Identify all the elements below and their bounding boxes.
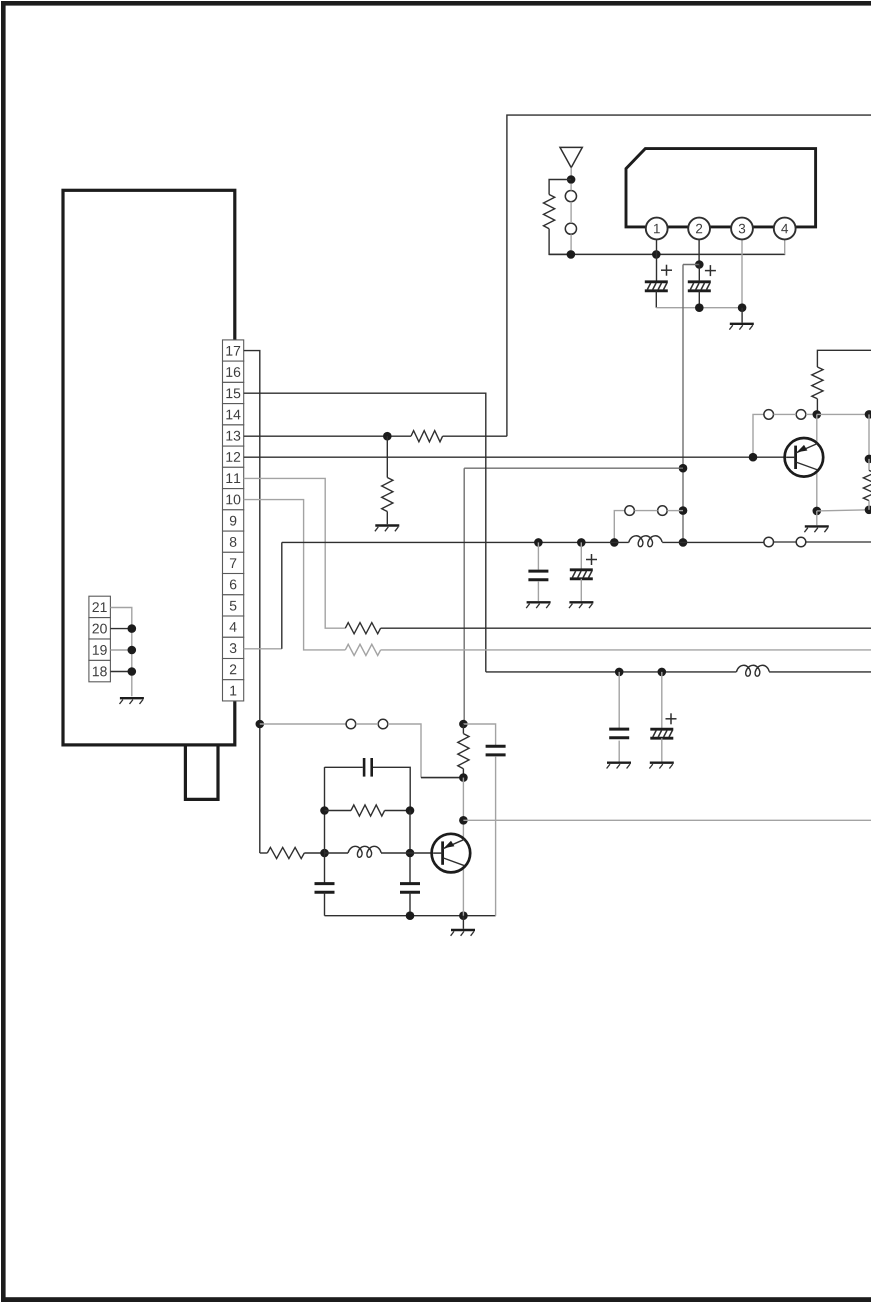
node (pin19 junction): [128, 646, 137, 655]
wire (C5 bottom lead): [618, 741, 620, 762]
node (bus-pin1 junction): [652, 250, 661, 259]
tuner pin 2 lead: [698, 238, 700, 265]
wire (supply row to right edge): [817, 350, 871, 367]
resistor R2 (pin13 row): [411, 431, 443, 442]
wire (bus between L1 and tuning line): [662, 541, 683, 543]
wire (C1 bottom): [655, 291, 657, 308]
wire (to resistor R1): [549, 180, 571, 195]
wire (tuning line down to oscillator): [463, 468, 465, 724]
capacitor C5: [609, 728, 629, 731]
wire (J5 to corner down): [388, 724, 421, 778]
tuner pin 1 lead: [656, 238, 658, 282]
node (R6-Q1 junction): [813, 410, 822, 419]
node (tank left mid): [320, 806, 329, 815]
node (pin13 divider junction): [383, 432, 392, 441]
node (jumper at bus): [610, 538, 619, 547]
wire (jog from C2 top to long vertical): [683, 264, 699, 266]
plus C1: [661, 269, 672, 271]
wire (emitter row to right edge): [817, 510, 869, 511]
plus C6: [666, 718, 677, 720]
wire (J3 mid): [774, 541, 797, 543]
node (tuning line junction A): [679, 464, 688, 473]
ground (Q1 emitter): [805, 525, 829, 527]
jumper J3 pin b: [796, 537, 806, 547]
wire (jumper branch): [614, 511, 625, 543]
node (pin17 net junction): [255, 720, 264, 729]
wire (C10 bottom vertical): [495, 756, 497, 915]
wire (R8 to tank): [304, 852, 324, 854]
capacitor C10: [486, 745, 506, 748]
wire (pin17 vertical to R8): [260, 852, 268, 854]
wire (IF bus left): [282, 541, 629, 543]
node (right edge bottom): [865, 506, 871, 515]
capacitor C7 (series): [363, 758, 366, 777]
wire (tank top row): [325, 766, 363, 768]
capacitor C6 (electrolytic): [650, 728, 673, 731]
plus C4: [586, 559, 597, 561]
ground (connector 21-18): [120, 697, 144, 699]
wire (tank top row right): [373, 767, 410, 810]
wire (osc feed branch): [463, 724, 495, 745]
jumper J5 pin b: [378, 719, 388, 729]
resistor R6 (Q1 collector load): [812, 367, 823, 399]
wire (Q1 emitter down): [816, 471, 818, 511]
wire (cap ground bus): [656, 307, 742, 309]
wire (R2 to net box): [443, 435, 507, 437]
wire (C5 top lead): [618, 672, 620, 729]
jumper J3 pin a: [764, 537, 774, 547]
tuner pin 4 lead: [784, 238, 786, 255]
node (osc output node): [459, 816, 468, 825]
node (C9 at bottom row): [406, 911, 415, 920]
wire (pin 12 row to Q1 base): [244, 456, 795, 458]
wire (Q2 collector down): [462, 867, 464, 915]
wire (C3 bottom lead): [537, 581, 539, 601]
wire (bus to jumper J3): [683, 541, 764, 543]
node (row672 C6): [658, 668, 667, 677]
wire (C9 bottom lead): [409, 892, 411, 916]
ground (C4): [569, 601, 593, 603]
node (osc ground node): [459, 911, 468, 920]
wire (to osc ground): [462, 916, 464, 929]
main unit bottom tab: [185, 746, 218, 799]
ground (oscillator): [451, 929, 475, 931]
node (pin18 junction): [128, 667, 137, 676]
wire (tuning line vertical): [682, 265, 684, 543]
wire (J4 mid): [774, 413, 797, 415]
node (tank right bottom): [406, 849, 415, 858]
wire (L3 to Q2 base): [381, 852, 434, 854]
node (right edge mid): [865, 455, 871, 464]
wire (right edge vertical lower): [868, 459, 870, 471]
wire (jumper mid): [634, 510, 657, 512]
wire (bus to right edge): [806, 541, 871, 543]
page border left bar: [1, 1, 6, 1302]
node (tuning line at bus): [679, 538, 688, 547]
wire (row 628 to right edge): [381, 627, 871, 629]
antenna symbol: [560, 147, 582, 167]
main unit outline (thick box): [63, 190, 235, 745]
wire (pin 13 row): [244, 435, 411, 437]
wire (R3 bottom lead): [386, 512, 388, 525]
wire (pin 20 stub): [110, 628, 131, 630]
capacitor C4 (electrolytic): [570, 568, 593, 571]
node (bus-antenna junction): [567, 250, 576, 259]
wire (row 650 to right edge): [381, 649, 871, 651]
wire (Q1 base branch up): [753, 414, 764, 457]
resistor R8 (osc input): [267, 847, 304, 858]
resistor R9 (tank): [351, 805, 385, 816]
node (antenna junction): [567, 175, 576, 184]
wire (tuning line horizontal to osc): [464, 467, 683, 469]
capacitor C9 (tank right): [400, 882, 420, 885]
page border bottom bar: [1, 1297, 871, 1302]
wire (R9 left lead): [325, 810, 352, 812]
wire (R1 bottom to bus): [549, 229, 571, 255]
wire (C6 bottom lead): [661, 738, 663, 761]
wire (to osc emitter node): [421, 777, 463, 779]
ground (tuner pins): [730, 323, 754, 325]
jumper J4 pin b: [796, 410, 806, 420]
wire (osc bottom row): [325, 915, 496, 917]
wire (net outline from pin 13 up and across top to right edge): [507, 115, 871, 436]
wire (row 672 to right edge): [769, 671, 871, 673]
wire (pin 21 to vertical): [110, 608, 131, 697]
inductor L3 (tank): [348, 846, 381, 857]
wire (tuner supply bus): [549, 253, 785, 255]
wire (pin 10 net): [244, 500, 346, 650]
wire (R6 bottom): [816, 399, 818, 415]
wire (Q1 emitter to ground): [816, 511, 818, 525]
inductor L2: [736, 665, 769, 676]
wire (R10 bottom lead): [462, 769, 464, 778]
wire (R9 right lead): [385, 810, 410, 812]
node (Q1 emitter junction): [813, 507, 822, 516]
wire (jumper to tuning line): [667, 510, 683, 512]
resistor R10 (osc emitter): [458, 734, 469, 769]
wire (emitter vertical): [462, 778, 464, 839]
resistor R3 (to ground): [382, 478, 393, 512]
node (tuning line junction B): [679, 506, 688, 515]
wire (C2 top lead): [698, 265, 700, 282]
tuner pin 3 lead: [741, 238, 743, 308]
plus C2: [705, 270, 716, 272]
node (row672 C5): [615, 668, 624, 677]
wire (tank right vertical): [409, 811, 411, 884]
wire (R7 bottom lead): [868, 501, 870, 510]
node (osc top node): [459, 720, 468, 729]
wire (Q1 collector up): [816, 414, 818, 444]
resistor R1: [544, 195, 555, 229]
tuner pin 2 circle: [688, 218, 710, 240]
wire (pin 17 stub and long vertical): [244, 351, 260, 853]
wire (C4 top lead): [580, 542, 582, 569]
node (bus cap C3): [534, 538, 543, 547]
wire (pin 19 stub): [110, 649, 131, 651]
wire (L3 left lead): [325, 852, 349, 854]
wire (C4 bottom lead): [580, 579, 582, 601]
wire (osc jumper row): [260, 723, 346, 725]
connector J1 pin a: [565, 191, 576, 202]
tuner TU1 outline: [626, 149, 816, 227]
jumper J5 pin a: [346, 719, 356, 729]
wire (osc output row to right edge): [463, 819, 871, 821]
tuner pin 4 circle: [774, 218, 796, 240]
wire (pin 18 stub): [110, 671, 131, 673]
resistor R4 (row 628): [345, 623, 380, 634]
ground (R3): [375, 524, 399, 526]
tuner pin 3 circle: [731, 218, 753, 240]
wire (C3 top lead): [537, 542, 539, 569]
capacitor C1 (electrolytic): [645, 280, 668, 283]
jumper J2 pin b: [658, 506, 668, 516]
jumper J4 pin a: [764, 410, 774, 420]
wire (R3 top lead): [386, 436, 388, 477]
resistor R7 (right edge): [863, 470, 871, 500]
node (right edge top): [865, 410, 871, 419]
wire (C6 top lead): [661, 672, 663, 729]
node (pin20 junction): [128, 624, 137, 633]
wire (node to right edge row): [817, 413, 869, 415]
connector J1 pin b: [565, 223, 576, 234]
wire (pin 11 net): [244, 478, 346, 628]
page border top bar: [1, 1, 871, 6]
wire (row 672 left): [486, 671, 737, 673]
tuner pin 1 circle: [646, 218, 668, 240]
transistor Q1: [785, 438, 824, 477]
ground (C3): [527, 601, 551, 603]
wire (J4 to R6 node): [806, 413, 817, 415]
connector pin strip 17-1: [223, 340, 244, 361]
wire (J5 mid): [356, 723, 379, 725]
node (tank left bottom): [320, 849, 329, 858]
capacitor C2 (electrolytic): [688, 280, 711, 283]
wire (C2 bottom): [698, 291, 700, 308]
node (base branch junction): [749, 453, 758, 462]
inductor L1: [629, 536, 662, 547]
node (pin3-ground junction): [738, 303, 747, 312]
wire (antenna feed through J1): [570, 184, 572, 191]
node (C2-bus junction): [695, 303, 704, 312]
wire (right edge vertical): [868, 414, 870, 459]
wire (antenna stub): [570, 168, 572, 180]
wire (stub to ground): [741, 308, 743, 323]
wire (R10 top lead): [462, 724, 464, 734]
capacitor C3: [528, 570, 548, 573]
node (pin2-C2 junction): [695, 260, 704, 269]
node (tank right mid): [406, 806, 415, 815]
wire (tank left vertical): [324, 767, 326, 884]
wire (C8 bottom lead): [324, 892, 326, 916]
resistor R5 (row 650): [345, 644, 380, 655]
capacitor C8 (tank left): [315, 882, 335, 885]
wire (pin 3 stub): [244, 648, 282, 650]
node (bus cap C4): [577, 538, 586, 547]
jumper J2 pin a: [625, 506, 635, 516]
transistor Q2 (oscillator): [432, 834, 471, 873]
wire (pin 15 net): [244, 393, 486, 672]
wire (pin 3 vertical to bus): [281, 542, 283, 648]
ground (C6): [650, 762, 674, 764]
node (osc emitter node): [459, 773, 468, 782]
connector pin strip 21-18: [89, 596, 111, 617]
ground (C5): [607, 762, 631, 764]
